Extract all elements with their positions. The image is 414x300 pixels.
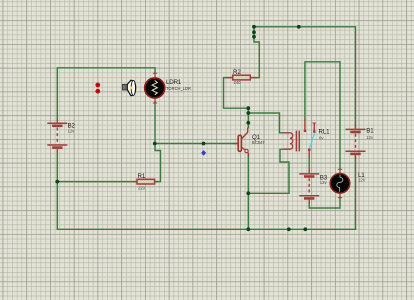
wire node A to Q1 base	[155, 143, 238, 145]
node collector mid	[246, 111, 250, 115]
wire B3.bottom to L1.bottom	[309, 198, 340, 208]
svg-text:240: 240	[234, 80, 242, 85]
svg-text:BC547: BC547	[252, 140, 265, 145]
svg-text:R1: R1	[138, 173, 146, 180]
wire bottom bus to B1.bottom	[355, 158, 357, 229]
wire B2.bottom to R1.left	[57, 152, 136, 182]
wire bottom bus	[57, 228, 355, 230]
node collector lower	[246, 121, 250, 125]
red marker dots	[95, 83, 100, 94]
wire L1.top to relay NO contact	[305, 62, 340, 169]
transistor Q1	[234, 128, 249, 157]
LDR LDR1	[145, 73, 165, 104]
svg-text:TORCH_LDR: TORCH_LDR	[166, 86, 191, 91]
resistor R1	[134, 179, 159, 184]
node emitter-bus	[246, 227, 250, 231]
node dots on vertical jog near top rail	[55, 25, 307, 231]
node B2-R1	[55, 180, 59, 184]
wire collector node down to Q1 collector	[247, 113, 249, 128]
wire top rail down jog to R2.right	[251, 27, 260, 78]
node bus mid1	[287, 227, 291, 231]
relay blade	[310, 133, 315, 149]
svg-text:12v: 12v	[68, 129, 76, 134]
lamp L1	[330, 169, 350, 199]
battery B2	[47, 119, 67, 153]
battery B1	[346, 125, 366, 159]
svg-text:LDR1: LDR1	[166, 79, 182, 86]
wire R2.left to collector node	[224, 78, 249, 109]
svg-text:220: 220	[138, 186, 146, 191]
wire node A to R1.right	[155, 144, 161, 182]
svg-text:B1: B1	[366, 127, 374, 134]
svg-text:12v: 12v	[366, 135, 374, 140]
svg-text:12V: 12V	[358, 178, 366, 183]
wire B2 branch down to bottom bus	[56, 182, 58, 230]
relay RL1 contacts	[304, 120, 316, 158]
wire relay pole to B3.top	[308, 157, 310, 171]
wire Q1 emitter down to bottom bus	[247, 156, 249, 230]
node on top rail	[297, 25, 301, 29]
wire LDR1.bottom to node A	[154, 102, 156, 144]
relay RL1 coil	[283, 131, 300, 152]
resistor R2	[226, 75, 258, 80]
node emitter-coil	[246, 191, 250, 195]
origin marker blue diamond	[201, 150, 206, 156]
node bus mid2	[303, 227, 307, 231]
svg-text:12v: 12v	[320, 180, 328, 185]
wire collector node to relay coil top	[248, 108, 282, 133]
wire relay coil bottom to emitter node	[248, 149, 289, 193]
torch icon	[123, 80, 136, 96]
node collector upper	[246, 106, 250, 110]
wire B1.top to top rail	[254, 27, 356, 126]
battery B3	[299, 169, 319, 203]
node base wire	[202, 142, 206, 146]
wire B2.top to LDR1.top	[57, 68, 155, 119]
svg-text:R2: R2	[233, 69, 241, 76]
node A LDR bottom	[153, 142, 157, 146]
